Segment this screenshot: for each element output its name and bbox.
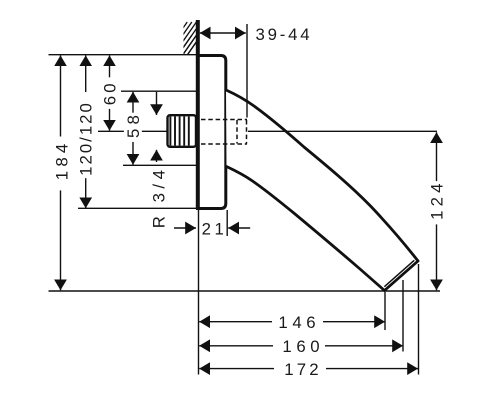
spout upper profile	[226, 90, 418, 261]
wall face line	[196, 20, 200, 209]
dimension 172	[199, 368, 418, 370]
spout tip extension line	[384, 292, 386, 330]
dimension 120/120	[85, 55, 87, 208]
39-44 extension line	[246, 24, 248, 118]
escutcheon front extension stub	[226, 210, 228, 236]
hidden nipple dashed outline	[201, 120, 247, 145]
dimension 124	[436, 132, 438, 290]
thin lines group	[49, 24, 441, 375]
escutcheon-bottom extension line	[78, 207, 196, 209]
dimension 39-44	[200, 32, 246, 34]
svg-text:60: 60	[101, 80, 120, 105]
dimension 60	[109, 55, 111, 130]
centerline right	[248, 130, 437, 132]
escutcheon	[196, 56, 226, 209]
centerline left	[98, 130, 167, 132]
svg-text:39-44: 39-44	[256, 25, 313, 44]
svg-text:21: 21	[202, 219, 228, 238]
wall hatch	[158, 22, 211, 71]
svg-text:120/120: 120/120	[77, 101, 96, 176]
dimension R 3/4 arrows	[156, 92, 158, 162]
svg-text:184: 184	[52, 140, 71, 181]
dimension 146	[199, 321, 385, 323]
spout lower profile	[227, 167, 385, 291]
top extension line	[49, 54, 197, 56]
dimension 160	[199, 345, 403, 347]
svg-text:160: 160	[282, 337, 324, 356]
svg-text:146: 146	[278, 313, 320, 332]
spout body	[226, 90, 418, 291]
spout outlet inner lip	[385, 261, 414, 287]
svg-text:58: 58	[124, 111, 143, 138]
dimension 184	[60, 55, 62, 290]
outlet extension line	[402, 280, 404, 352]
spout-bottom extension line	[123, 164, 196, 166]
spout-top extension line	[121, 90, 196, 92]
spout outlet face	[385, 261, 419, 291]
baseline extension	[49, 290, 441, 292]
threaded connector R3/4	[168, 115, 197, 147]
svg-text:172: 172	[284, 360, 322, 379]
svg-text:R 3/4: R 3/4	[149, 166, 168, 229]
escutcheon back extension line	[198, 210, 200, 375]
thread hatch lines	[170, 116, 188, 145]
spout end extension line	[418, 264, 420, 375]
dimension 21	[174, 227, 250, 229]
dimension 58	[132, 92, 134, 165]
svg-text:124: 124	[428, 179, 447, 220]
